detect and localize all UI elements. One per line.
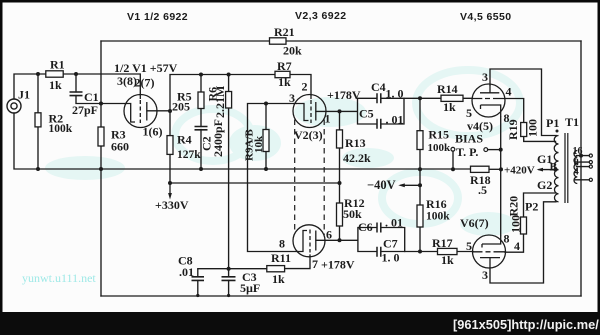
wire: bias T.P. left terminal column — [452, 151, 454, 169]
node R15 bottom on bus — [418, 167, 422, 171]
svg-text:4: 4 — [574, 167, 579, 178]
+330V supply arrow — [168, 183, 172, 200]
svg-text:1k: 1k — [272, 272, 285, 286]
node R5 top junction — [199, 73, 203, 77]
node R2 bottom on ground bus — [36, 167, 40, 171]
svg-text:8: 8 — [504, 111, 510, 125]
node +330V rail left end — [168, 181, 172, 185]
wire: V2 cathode to R9 node to cathode column — [248, 104, 298, 252]
resistor R19 100 (rotated labels) — [521, 123, 527, 137]
resistor R6 2.21M (rotated labels) — [226, 92, 232, 109]
resistor R21 20k — [270, 38, 287, 44]
svg-text:V4,5 6550: V4,5 6550 — [460, 11, 511, 23]
svg-text:[961x505]http://upic.me/: [961x505]http://upic.me/ — [453, 317, 599, 332]
resistor R4 127k — [167, 136, 173, 155]
svg-text:R20: R20 — [507, 196, 521, 217]
svg-text:100: 100 — [509, 215, 523, 233]
svg-text:660: 660 — [111, 140, 129, 154]
svg-text:C1: C1 — [84, 90, 99, 104]
svg-text:C4: C4 — [371, 80, 386, 94]
wire: J1 to R1 — [14, 74, 46, 99]
svg-text:R17: R17 — [432, 236, 453, 250]
resistor R20 100 (rotated labels) — [521, 217, 527, 234]
node +330V rail right end (R13/R12 junction) — [338, 181, 342, 185]
capacitor C4 1.0 — [377, 93, 381, 103]
input jack J1 — [7, 99, 21, 113]
svg-text:127k: 127k — [177, 149, 201, 161]
+330V rail — [170, 182, 340, 184]
wire: left feedback column — [100, 41, 102, 296]
node V1 cathode feedback junction — [99, 102, 103, 106]
svg-text:yunwt.u111.net: yunwt.u111.net — [22, 271, 96, 285]
node cathode column on bus — [499, 167, 503, 171]
wire: B tap arrow line — [539, 169, 556, 171]
svg-text:100k: 100k — [428, 142, 452, 154]
svg-text:R13: R13 — [345, 136, 366, 150]
svg-text:20k: 20k — [283, 44, 302, 58]
resistor R7 1k — [275, 71, 290, 77]
wire: R20 column from winding tap to V6 screen — [505, 193, 556, 252]
svg-text:5: 5 — [466, 239, 472, 253]
resistor R13 42.2k — [337, 130, 343, 148]
transformer core — [565, 133, 568, 203]
svg-text:6: 6 — [326, 228, 332, 242]
resistor R12 50k — [337, 203, 343, 226]
wire: C6/C7 coupling loop — [340, 228, 405, 252]
svg-text:R4: R4 — [177, 133, 192, 147]
node R15 top junction — [418, 96, 422, 100]
node R2 top junction — [36, 72, 40, 76]
wire: ground bus right of R18 — [489, 168, 501, 170]
svg-text:.5: .5 — [478, 183, 487, 197]
capacitor C8 .01 — [192, 277, 205, 281]
capacitor C5 .01 — [377, 119, 381, 129]
wire: R1 to C1 node to V1 grid — [63, 74, 140, 95]
node C8 bottom on ground rail — [196, 294, 199, 297]
resistor R1 1k — [46, 71, 63, 77]
wire: winding bottom to V6 plate — [490, 202, 556, 283]
wire: C1 node to V1 cathode — [101, 103, 126, 105]
svg-text:R14: R14 — [437, 82, 458, 96]
transformer secondary winding — [574, 151, 577, 184]
wire: C4/C5 coupling loop — [340, 98, 405, 124]
svg-text:4: 4 — [506, 85, 512, 99]
node bias tap on cathode column — [499, 148, 503, 152]
wire: R5/C2 column — [200, 75, 202, 170]
svg-text:3: 3 — [482, 70, 488, 84]
resistor R9A/B 10k (rotated labels) — [263, 130, 269, 152]
wire: R19 to winding tap — [524, 137, 556, 142]
tube V2 (V2(3)) — [293, 95, 326, 128]
svg-text:−40V: −40V — [367, 178, 396, 192]
wire: V4 screen to R19 — [505, 99, 524, 123]
svg-text:2400pF: 2400pF — [211, 119, 225, 157]
svg-text:27pF: 27pF — [72, 103, 98, 117]
resistor R14 1k — [441, 95, 463, 101]
svg-text:T. P.: T. P. — [456, 145, 478, 159]
resistor R16 100k — [417, 205, 423, 227]
wire: V4 cathode column down through bias tap to bus — [500, 117, 502, 169]
svg-text:1k: 1k — [49, 78, 62, 92]
wire: C6/C7 exit to R16 column — [405, 251, 420, 253]
svg-text:42.2k: 42.2k — [343, 151, 371, 165]
node V3 plate junction — [338, 238, 342, 242]
node V2 cathode / R9 junction — [264, 102, 268, 106]
wire: R2 column — [37, 74, 39, 169]
wire: V1 plate lead — [147, 110, 170, 112]
wire: right feedback column to 16-ohm tap — [580, 41, 582, 296]
wire: R6 column down to R11 node — [228, 75, 230, 269]
svg-text:+178V: +178V — [327, 88, 361, 102]
svg-text:5µF: 5µF — [240, 281, 260, 295]
wire: R4 column to +330V rail — [169, 111, 171, 183]
svg-text:10k: 10k — [253, 135, 265, 153]
wire: V3 grid to R11 — [285, 255, 310, 269]
resistor R11 1k — [267, 266, 285, 272]
wire: R9A/B leads — [265, 104, 267, 170]
svg-text:+330V: +330V — [155, 198, 189, 212]
svg-text:1: 1 — [325, 112, 331, 126]
svg-text:2(7): 2(7) — [135, 76, 155, 90]
svg-text:R7: R7 — [277, 59, 292, 73]
svg-text:8: 8 — [504, 232, 510, 246]
svg-text:R15: R15 — [428, 128, 449, 142]
node -40V junction — [418, 183, 422, 187]
svg-text:100: 100 — [526, 119, 540, 137]
svg-text:V6(7): V6(7) — [460, 216, 489, 230]
svg-text:5: 5 — [466, 106, 472, 120]
resistor R17 1k — [438, 248, 458, 254]
svg-text:R1: R1 — [50, 58, 65, 72]
wire: C1 branch — [76, 74, 101, 104]
svg-text:1k: 1k — [278, 75, 291, 89]
svg-text:.01: .01 — [179, 265, 194, 279]
wire: V4 plate up over to transformer P1 — [490, 69, 557, 136]
svg-text:. 01: . 01 — [385, 216, 403, 230]
resistor R2 100k — [35, 113, 41, 127]
wire: bias T.P. right terminal to cathode column — [488, 149, 501, 151]
svg-text:205: 205 — [172, 100, 190, 114]
capacitor C2 2400pF (rotated labels) — [195, 127, 208, 130]
svg-text:3: 3 — [289, 91, 295, 105]
BIAS T.P. terminals — [451, 147, 488, 151]
svg-text:1k: 1k — [441, 253, 454, 267]
wire: R15/R16 column — [419, 98, 421, 251]
svg-text:T1: T1 — [565, 115, 579, 129]
wire: V2 plate lead — [316, 110, 340, 112]
node V1 plate junction — [168, 109, 172, 113]
node R9 bottom on ground bus — [264, 167, 268, 171]
node R3 bottom on ground bus — [99, 167, 103, 171]
resistor R3 660 — [98, 127, 104, 146]
svg-text:V2(3): V2(3) — [294, 128, 323, 142]
svg-text:R16: R16 — [426, 197, 447, 211]
transformer T1 primary winding — [554, 136, 558, 202]
tube V4 (6550) — [472, 84, 505, 117]
capacitor C7 1.0 — [377, 247, 381, 257]
resistor R18 .5 — [471, 166, 490, 172]
svg-text:1. 0: 1. 0 — [386, 87, 404, 101]
tube V6 (6550) — [473, 235, 506, 268]
svg-text:BIAS: BIAS — [455, 132, 483, 146]
svg-text:1(6): 1(6) — [143, 125, 163, 139]
capacitor C6 .01 — [377, 223, 381, 233]
svg-text:100k: 100k — [426, 211, 450, 223]
wire: V3 plate lead — [316, 239, 340, 241]
wire: J1 down to ground bus — [14, 113, 471, 169]
P1 polarity dot — [556, 130, 559, 133]
wire: R13/R12 column — [339, 111, 341, 240]
svg-text:C6: C6 — [358, 220, 373, 234]
svg-text:1. 0: 1. 0 — [382, 251, 400, 265]
node C3 bottom on ground rail — [227, 294, 230, 297]
svg-text:R21: R21 — [274, 25, 295, 39]
svg-text:. 01: . 01 — [386, 113, 404, 127]
wire: secondary taps — [575, 156, 590, 180]
svg-text:J1: J1 — [18, 88, 30, 102]
svg-text:2: 2 — [302, 80, 308, 94]
secondary terminals — [589, 154, 592, 181]
-40V label arrow — [398, 183, 405, 187]
+420V label arrow — [537, 168, 543, 172]
tube envelope dashed lines V2-V3 — [295, 120, 325, 236]
wire: top feedback rail — [101, 40, 581, 42]
pale cyan watermark blobs — [45, 70, 520, 236]
svg-text:R11: R11 — [271, 251, 291, 265]
svg-text:8: 8 — [279, 237, 285, 251]
node C1 top junction — [74, 72, 78, 76]
tube V1 (1/2 6922) — [124, 95, 157, 128]
svg-text:+178V: +178V — [321, 258, 355, 272]
wire: C8 branch — [198, 269, 229, 296]
bottom black caption bar — [0, 312, 600, 335]
svg-text:G2: G2 — [537, 178, 552, 192]
resistor R5 205 — [198, 92, 204, 109]
svg-text:2.21M: 2.21M — [213, 86, 227, 118]
capacitor C1 27pF — [70, 92, 83, 96]
svg-text:B: B — [550, 162, 558, 174]
wire: R16 to R17 to V6 grid — [420, 251, 473, 253]
svg-text:V1 1/2 6922: V1 1/2 6922 — [127, 11, 188, 23]
wire: V6 cathode column — [500, 169, 502, 235]
resistor R15 100k — [417, 131, 423, 150]
svg-text:50k: 50k — [343, 207, 362, 221]
wire: -40V arrow stub — [401, 184, 420, 186]
wire: V1 plate column +57V to R7 row — [170, 75, 311, 112]
node T.P. column on bus — [451, 167, 455, 171]
svg-text:1/2 V1 +57V: 1/2 V1 +57V — [114, 61, 178, 75]
svg-text:C7: C7 — [383, 237, 398, 251]
capacitor C3 5uF — [222, 277, 236, 281]
svg-text:+420V: +420V — [504, 165, 535, 177]
svg-text:V2,3 6922: V2,3 6922 — [295, 10, 346, 22]
wire: bottom ground rail — [101, 295, 581, 297]
node B tap on primary — [554, 168, 558, 172]
wire: R3 leads — [100, 127, 102, 146]
node V2 plate junction — [338, 109, 342, 113]
wire: C3 leads — [228, 269, 230, 296]
tube V3 (lower half 6922) — [293, 225, 325, 257]
svg-text:1k: 1k — [443, 100, 456, 114]
svg-text:4: 4 — [514, 239, 520, 253]
node R6 top junction — [227, 73, 231, 77]
svg-text:P2: P2 — [525, 200, 538, 214]
svg-text:C5: C5 — [359, 107, 374, 121]
node R11/C8/C3 junction — [227, 267, 231, 271]
node C2 bottom on ground bus — [199, 167, 203, 171]
node C7 exit / R16 junction — [418, 250, 422, 254]
svg-text:P1: P1 — [546, 116, 559, 130]
wire: C4/C5 to R14 to V4 grid — [404, 97, 473, 99]
svg-text:3: 3 — [482, 268, 488, 282]
node 16-ohm tap on feedback line — [579, 154, 583, 158]
svg-text:7: 7 — [312, 257, 318, 271]
wire: R11 to C8/C3 node — [229, 268, 267, 270]
svg-text:100k: 100k — [49, 123, 73, 135]
